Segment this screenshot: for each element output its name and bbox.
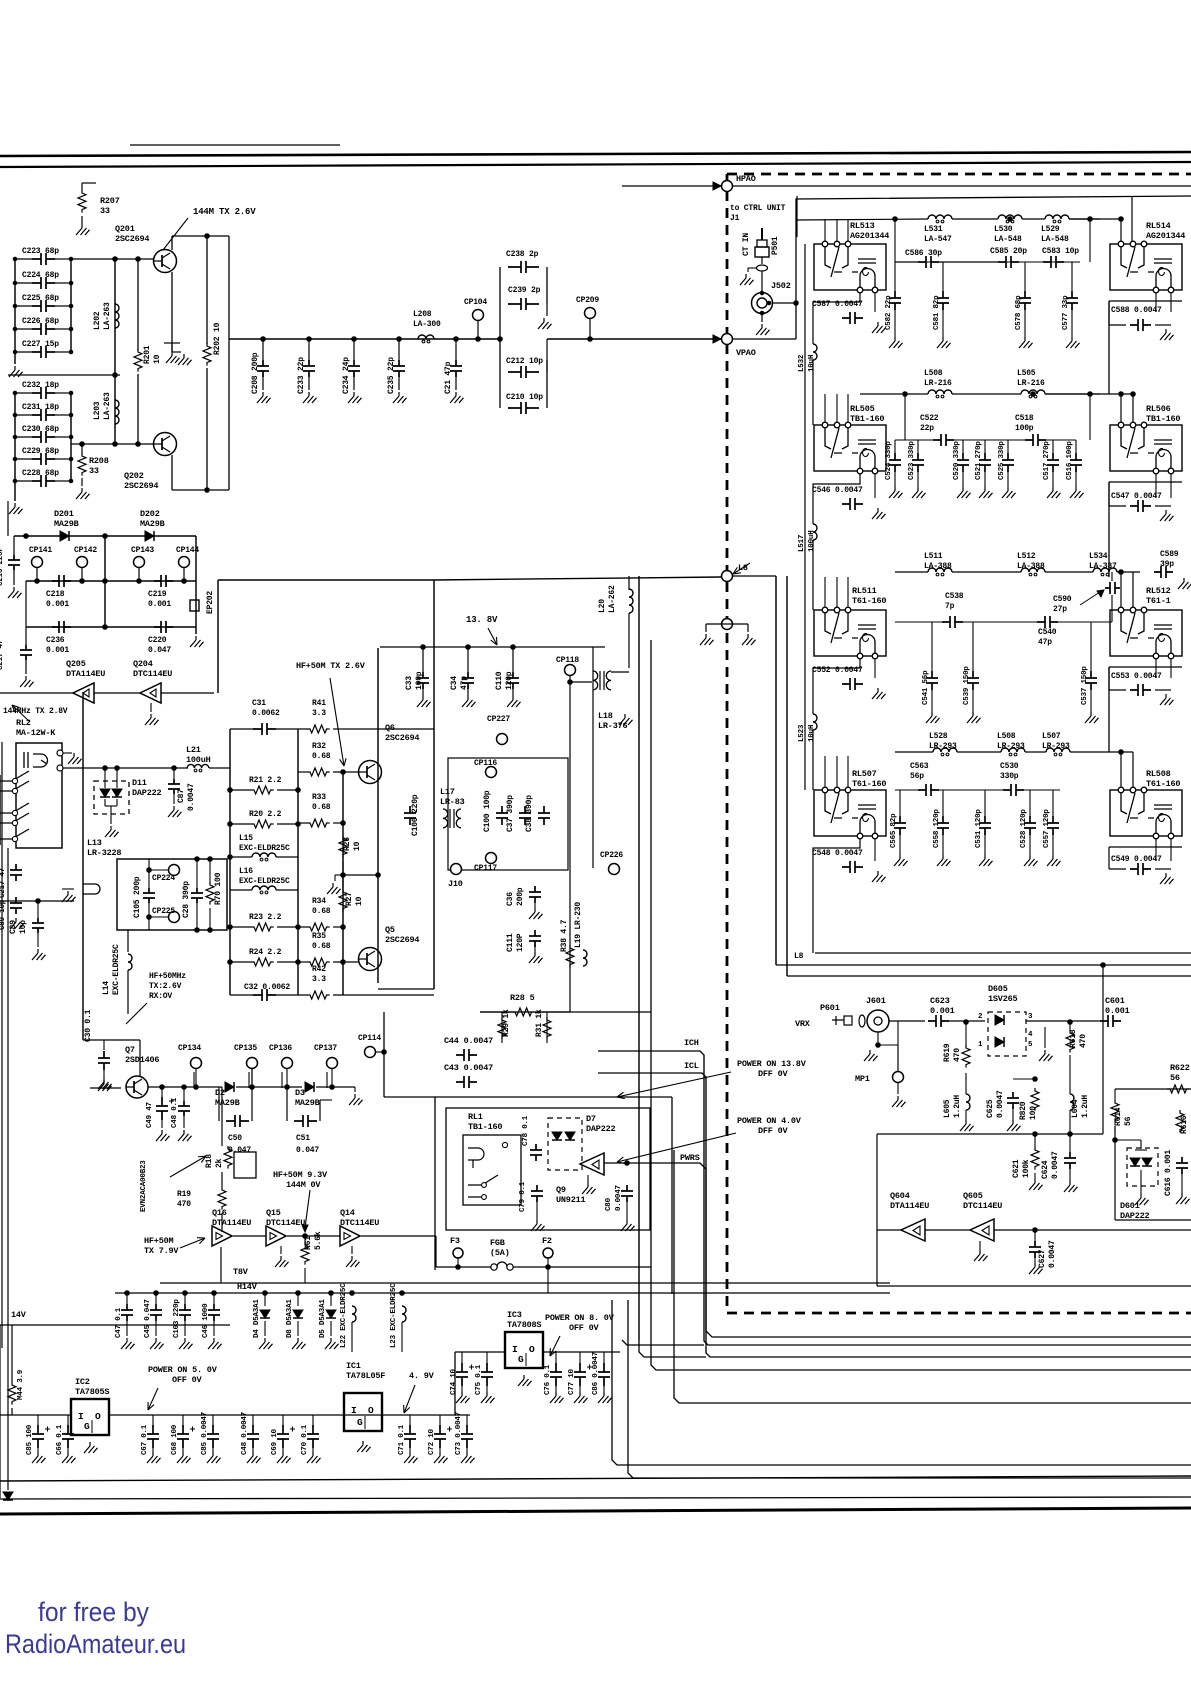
svg-text:R42: R42 <box>312 965 326 974</box>
svg-text:C540: C540 <box>1038 628 1057 637</box>
svg-text:2SC2694: 2SC2694 <box>385 733 419 743</box>
svg-text:LA-548: LA-548 <box>1041 235 1069 244</box>
svg-text:10uH: 10uH <box>808 725 816 742</box>
svg-text:CP143: CP143 <box>131 546 154 555</box>
svg-text:3.3: 3.3 <box>312 975 326 984</box>
svg-text:TA7805S: TA7805S <box>75 1387 109 1397</box>
svg-text:R18: R18 <box>205 1154 214 1168</box>
svg-text:C557 120p: C557 120p <box>1043 809 1051 848</box>
svg-text:Q9: Q9 <box>556 1185 566 1195</box>
svg-text:Q605: Q605 <box>963 1191 983 1201</box>
svg-text:C217 47: C217 47 <box>0 868 7 898</box>
svg-text:C111: C111 <box>506 933 515 952</box>
svg-text:C537 150p: C537 150p <box>1081 666 1089 705</box>
svg-text:0.0047: 0.0047 <box>1048 1240 1057 1268</box>
svg-text:C238 2p: C238 2p <box>506 250 539 259</box>
svg-text:DAP222: DAP222 <box>586 1124 616 1134</box>
svg-text:C547 0.0047: C547 0.0047 <box>1111 492 1162 501</box>
svg-text:L534: L534 <box>1089 552 1108 561</box>
svg-text:0.001: 0.001 <box>1105 1006 1130 1016</box>
svg-text:J1: J1 <box>730 214 740 223</box>
svg-text:10uH: 10uH <box>808 355 816 372</box>
svg-text:56p: 56p <box>910 772 924 781</box>
svg-text:LA-388: LA-388 <box>1017 562 1045 571</box>
svg-text:IC2: IC2 <box>75 1377 90 1387</box>
svg-text:LR-293: LR-293 <box>929 742 957 751</box>
svg-text:Q205: Q205 <box>66 659 86 669</box>
svg-text:39p: 39p <box>1160 560 1174 569</box>
svg-text:LR-293: LR-293 <box>997 742 1025 751</box>
svg-text:C31: C31 <box>252 699 266 708</box>
svg-text:T61-160: T61-160 <box>852 596 886 606</box>
svg-text:C43 0.0047: C43 0.0047 <box>444 1063 493 1073</box>
svg-text:0.001: 0.001 <box>930 1006 955 1016</box>
svg-text:R23 2.2: R23 2.2 <box>249 913 282 922</box>
svg-text:C530: C530 <box>1000 762 1019 771</box>
svg-text:L21: L21 <box>186 745 201 755</box>
svg-text:G: G <box>84 1421 90 1432</box>
svg-text:L508: L508 <box>997 732 1016 741</box>
svg-text:D2: D2 <box>215 1088 225 1098</box>
svg-text:C516 100p: C516 100p <box>1066 441 1074 480</box>
svg-text:C75 0.1: C75 0.1 <box>475 1364 483 1395</box>
svg-text:TA78L05F: TA78L05F <box>346 1371 385 1381</box>
svg-text:C234 24p: C234 24p <box>342 357 351 394</box>
svg-text:C216 220P: C216 220P <box>0 547 5 586</box>
svg-text:M44 3.9: M44 3.9 <box>17 1369 25 1400</box>
svg-text:0.001: 0.001 <box>46 646 69 655</box>
svg-text:CP136: CP136 <box>269 1044 292 1053</box>
svg-text:CP118: CP118 <box>556 656 579 665</box>
svg-text:C624: C624 <box>1041 1160 1050 1179</box>
svg-text:Q202: Q202 <box>124 471 144 481</box>
svg-text:0.68: 0.68 <box>312 803 331 812</box>
svg-text:CP225: CP225 <box>152 907 175 916</box>
svg-text:J10: J10 <box>448 879 463 889</box>
svg-text:C28 390p: C28 390p <box>182 881 191 918</box>
svg-text:0.68: 0.68 <box>312 907 331 916</box>
svg-text:C34: C34 <box>450 676 459 690</box>
svg-text:POWER ON 8. 0V: POWER ON 8. 0V <box>545 1313 615 1323</box>
svg-text:TB1-160: TB1-160 <box>1146 414 1180 424</box>
svg-text:C523 330p: C523 330p <box>908 441 916 480</box>
svg-text:CP227: CP227 <box>487 715 510 724</box>
svg-text:470: 470 <box>953 1048 962 1062</box>
svg-text:L507: L507 <box>1042 732 1061 741</box>
svg-text:CP142: CP142 <box>74 546 97 555</box>
svg-text:L531: L531 <box>924 225 943 234</box>
svg-text:C36: C36 <box>506 892 515 906</box>
svg-text:C77 10: C77 10 <box>568 1368 576 1395</box>
svg-text:RX:OV: RX:OV <box>149 992 172 1001</box>
svg-text:27p: 27p <box>1053 605 1067 614</box>
svg-text:L505: L505 <box>1017 369 1036 378</box>
svg-text:120P: 120P <box>516 933 525 952</box>
svg-text:C33: C33 <box>405 676 414 690</box>
svg-text:C73 0.0047: C73 0.0047 <box>455 1412 463 1455</box>
svg-text:R20 2.2: R20 2.2 <box>249 810 282 819</box>
svg-text:T8V: T8V <box>233 1267 249 1277</box>
svg-text:0.68: 0.68 <box>312 752 331 761</box>
svg-text:Q204: Q204 <box>133 659 153 669</box>
svg-text:C565 82p: C565 82p <box>890 813 898 848</box>
svg-text:R41: R41 <box>312 699 326 708</box>
svg-text:DTC114EU: DTC114EU <box>266 1218 305 1228</box>
svg-text:TB1-160: TB1-160 <box>468 1122 502 1132</box>
svg-text:D5 D5A3A1: D5 D5A3A1 <box>319 1299 327 1338</box>
svg-text:330p: 330p <box>1000 772 1019 781</box>
svg-text:C521 270p: C521 270p <box>975 441 983 480</box>
svg-text:L508: L508 <box>924 369 943 378</box>
svg-text:C89 10p: C89 10p <box>0 899 7 930</box>
svg-text:IC3: IC3 <box>507 1310 522 1320</box>
svg-text:C528 120p: C528 120p <box>1020 809 1028 848</box>
svg-text:C217 47: C217 47 <box>0 640 5 670</box>
svg-text:C586 30p: C586 30p <box>905 249 942 258</box>
svg-text:0.001: 0.001 <box>148 600 171 609</box>
svg-text:L20: L20 <box>598 599 607 613</box>
svg-text:C548 0.0047: C548 0.0047 <box>812 849 863 858</box>
svg-text:IC1: IC1 <box>346 1361 361 1371</box>
svg-text:R32: R32 <box>312 742 326 751</box>
svg-text:R622: R622 <box>1170 1063 1190 1073</box>
svg-text:C85 100: C85 100 <box>26 1424 34 1455</box>
svg-text:100: 100 <box>1029 1106 1038 1120</box>
svg-text:10: 10 <box>153 354 162 364</box>
svg-text:22p: 22p <box>920 424 934 433</box>
svg-text:HPAO: HPAO <box>736 174 756 184</box>
svg-text:1.2uH: 1.2uH <box>1081 1095 1090 1118</box>
svg-text:3: 3 <box>1028 1013 1033 1021</box>
svg-text:Q16: Q16 <box>212 1208 227 1218</box>
svg-text:O: O <box>529 1344 535 1355</box>
svg-text:HF+50M 9.3V: HF+50M 9.3V <box>273 1170 328 1180</box>
svg-text:56: 56 <box>1124 1116 1133 1126</box>
svg-text:MA-12W-K: MA-12W-K <box>16 728 56 738</box>
svg-text:D4 D5A3A1: D4 D5A3A1 <box>253 1299 261 1338</box>
svg-text:47p: 47p <box>460 676 469 690</box>
svg-text:D201: D201 <box>54 509 74 519</box>
svg-text:C80: C80 <box>605 1197 613 1211</box>
svg-text:MA29B: MA29B <box>140 519 165 529</box>
svg-text:O: O <box>368 1405 374 1416</box>
svg-text:P501: P501 <box>771 236 780 255</box>
svg-text:C601: C601 <box>1105 996 1125 1006</box>
svg-text:R619: R619 <box>943 1043 952 1062</box>
svg-text:C48 0.0047: C48 0.0047 <box>241 1412 249 1455</box>
svg-text:C585 20p: C585 20p <box>990 247 1027 256</box>
svg-text:C87: C87 <box>177 789 186 803</box>
svg-text:G: G <box>357 1417 363 1428</box>
svg-text:L8: L8 <box>794 952 804 961</box>
svg-text:4. 9V: 4. 9V <box>409 1371 435 1381</box>
svg-text:FGB: FGB <box>490 1238 505 1248</box>
svg-text:C67 0.1: C67 0.1 <box>141 1424 149 1455</box>
svg-text:C590: C590 <box>1053 595 1072 604</box>
svg-text:0.0047: 0.0047 <box>1051 1151 1060 1179</box>
svg-text:DFF 0V: DFF 0V <box>758 1126 789 1136</box>
svg-text:C517 270p: C517 270p <box>1043 441 1051 480</box>
svg-text:R820: R820 <box>1019 1101 1028 1120</box>
svg-text:C235 22p: C235 22p <box>387 357 396 394</box>
svg-text:L19 LR-230: L19 LR-230 <box>574 902 583 948</box>
svg-text:C218: C218 <box>46 590 65 599</box>
svg-text:CP141: CP141 <box>29 546 52 555</box>
svg-text:100uH: 100uH <box>808 530 816 552</box>
svg-text:HF+50M TX 2.6V: HF+50M TX 2.6V <box>296 661 366 671</box>
svg-text:RL512: RL512 <box>1146 586 1171 596</box>
svg-text:O: O <box>95 1411 101 1422</box>
svg-text:R207: R207 <box>100 196 120 206</box>
svg-text:C518: C518 <box>1015 414 1034 423</box>
svg-text:C208 200p: C208 200p <box>251 352 260 394</box>
svg-text:R208: R208 <box>89 456 109 466</box>
svg-text:LA-300: LA-300 <box>413 320 441 329</box>
svg-text:F3: F3 <box>450 1236 460 1246</box>
svg-text:47p: 47p <box>1038 638 1052 647</box>
svg-text:C100 100p: C100 100p <box>483 790 492 832</box>
svg-text:C37 390p: C37 390p <box>506 795 515 832</box>
svg-text:C103 220p: C103 220p <box>173 1299 181 1338</box>
svg-text:R38 4.7: R38 4.7 <box>560 919 569 952</box>
svg-text:1: 1 <box>978 1041 983 1049</box>
svg-text:C520 330p: C520 330p <box>953 441 961 480</box>
svg-text:LR-376: LR-376 <box>598 721 628 731</box>
svg-text:C45 0.047: C45 0.047 <box>144 1299 152 1338</box>
svg-text:2k: 2k <box>215 1158 224 1168</box>
svg-text:CP226: CP226 <box>600 851 623 860</box>
svg-text:G: G <box>518 1354 524 1365</box>
svg-text:C578 68p: C578 68p <box>1015 295 1023 330</box>
svg-text:DAP222: DAP222 <box>132 788 162 798</box>
svg-text:J601: J601 <box>866 996 886 1006</box>
svg-text:ICL: ICL <box>684 1061 699 1071</box>
svg-text:DTC114EU: DTC114EU <box>963 1201 1002 1211</box>
svg-text:HF+50M: HF+50M <box>144 1236 174 1246</box>
svg-text:C558 120p: C558 120p <box>933 809 941 848</box>
svg-text:EXC-ELDR25C: EXC-ELDR25C <box>239 877 290 886</box>
svg-text:AG201344: AG201344 <box>850 231 889 241</box>
svg-text:C21 47p: C21 47p <box>444 361 453 394</box>
svg-text:C38 390p: C38 390p <box>525 795 534 832</box>
svg-text:LA-388: LA-388 <box>924 562 952 571</box>
svg-text:RL1: RL1 <box>468 1112 483 1122</box>
svg-text:RL513: RL513 <box>850 221 875 231</box>
svg-text:C71 0.1: C71 0.1 <box>398 1424 406 1455</box>
svg-text:0.001: 0.001 <box>46 600 69 609</box>
svg-text:D605: D605 <box>988 984 1008 994</box>
svg-text:L528: L528 <box>929 732 948 741</box>
svg-text:100uH: 100uH <box>186 755 211 765</box>
svg-text:LR-216: LR-216 <box>924 379 952 388</box>
svg-text:R201: R201 <box>143 345 152 364</box>
svg-text:POWER ON 4.0V: POWER ON 4.0V <box>737 1116 802 1126</box>
svg-text:200p: 200p <box>516 887 525 906</box>
svg-text:CP104: CP104 <box>464 298 487 307</box>
svg-text:I: I <box>512 1344 518 1355</box>
svg-text:L18: L18 <box>598 711 613 721</box>
svg-text:C76 0.1: C76 0.1 <box>544 1364 552 1395</box>
svg-text:Q604: Q604 <box>890 1191 910 1201</box>
svg-text:DTA114EU: DTA114EU <box>66 669 105 679</box>
svg-text:MP1: MP1 <box>855 1074 870 1084</box>
svg-text:MA29B: MA29B <box>54 519 79 529</box>
svg-text:C48 0.1: C48 0.1 <box>171 1097 179 1128</box>
svg-text:T61-160: T61-160 <box>852 779 886 789</box>
svg-text:D11: D11 <box>132 778 147 788</box>
svg-text:POWER ON 13.8V: POWER ON 13.8V <box>737 1059 807 1069</box>
svg-text:R70 100: R70 100 <box>214 872 223 905</box>
svg-text:0.0062: 0.0062 <box>252 709 280 718</box>
svg-text:RL508: RL508 <box>1146 769 1171 779</box>
svg-text:C623: C623 <box>930 996 950 1006</box>
svg-text:L15: L15 <box>239 834 253 843</box>
svg-text:T61-160: T61-160 <box>1146 779 1180 789</box>
svg-text:LR-216: LR-216 <box>1017 379 1045 388</box>
svg-text:CP224: CP224 <box>152 874 175 883</box>
svg-text:C522: C522 <box>920 414 939 423</box>
svg-text:C68 100: C68 100 <box>171 1424 179 1455</box>
svg-text:33: 33 <box>100 206 110 216</box>
svg-text:33: 33 <box>89 466 99 476</box>
svg-text:L605: L605 <box>943 1099 952 1118</box>
svg-text:C589: C589 <box>1160 550 1179 559</box>
svg-text:1.2uH: 1.2uH <box>953 1095 962 1118</box>
svg-text:C563: C563 <box>910 762 929 771</box>
svg-text:LR-293: LR-293 <box>1042 742 1070 751</box>
svg-text:L203: L203 <box>93 401 102 420</box>
svg-text:R24 2.2: R24 2.2 <box>249 948 282 957</box>
svg-text:D7: D7 <box>586 1114 596 1124</box>
svg-text:RL2: RL2 <box>16 718 31 728</box>
svg-text:AG201344: AG201344 <box>1146 231 1185 241</box>
svg-text:L202: L202 <box>93 311 102 330</box>
svg-text:R34: R34 <box>312 897 326 906</box>
svg-text:3.3: 3.3 <box>312 709 326 718</box>
svg-text:C549 0.0047: C549 0.0047 <box>1111 855 1162 864</box>
svg-text:C587 0.0047: C587 0.0047 <box>812 300 863 309</box>
svg-text:LA-387: LA-387 <box>1089 562 1117 571</box>
svg-text:CP114: CP114 <box>358 1034 381 1043</box>
svg-text:LR-83: LR-83 <box>440 797 465 807</box>
svg-text:VPAO: VPAO <box>736 348 756 358</box>
svg-text:RadioAmateur.eu: RadioAmateur.eu <box>5 1629 186 1659</box>
svg-text:C30 0.1: C30 0.1 <box>84 1009 93 1042</box>
svg-text:C105 200p: C105 200p <box>133 876 142 918</box>
svg-text:C50: C50 <box>228 1134 242 1143</box>
svg-text:2SD1406: 2SD1406 <box>125 1055 159 1065</box>
svg-text:C66 0.1: C66 0.1 <box>56 1424 64 1455</box>
svg-text:RL514: RL514 <box>1146 221 1171 231</box>
svg-text:Q15: Q15 <box>266 1208 281 1218</box>
svg-text:LA-263: LA-263 <box>103 302 112 330</box>
svg-text:C239 2p: C239 2p <box>508 286 541 295</box>
svg-text:CT IN: CT IN <box>742 233 751 256</box>
svg-text:C625: C625 <box>986 1099 995 1118</box>
svg-text:DTC114EU: DTC114EU <box>340 1218 379 1228</box>
svg-text:CP117: CP117 <box>474 864 497 873</box>
svg-text:C552 0.0047: C552 0.0047 <box>812 666 863 675</box>
svg-text:TX:2.6V: TX:2.6V <box>149 982 182 991</box>
svg-text:DTA114EU: DTA114EU <box>212 1218 251 1228</box>
svg-text:C212 10p: C212 10p <box>506 357 543 366</box>
svg-text:14V: 14V <box>11 1310 27 1320</box>
svg-text:EXC-ELDR25C: EXC-ELDR25C <box>112 944 121 995</box>
svg-text:C236: C236 <box>46 636 65 645</box>
svg-text:LA-548: LA-548 <box>994 235 1022 244</box>
svg-text:10: 10 <box>353 841 362 851</box>
svg-text:C233 22p: C233 22p <box>297 357 306 394</box>
svg-text:100k: 100k <box>1022 1159 1031 1178</box>
svg-text:R28 5: R28 5 <box>510 993 535 1003</box>
svg-text:C110: C110 <box>495 671 504 690</box>
svg-text:R21 2.2: R21 2.2 <box>249 776 282 785</box>
svg-text:C219: C219 <box>148 590 167 599</box>
svg-text:D601: D601 <box>1120 1201 1140 1211</box>
svg-text:C69 10: C69 10 <box>271 1428 279 1455</box>
svg-text:C541 56p: C541 56p <box>922 670 930 705</box>
svg-text:120p: 120p <box>505 671 514 690</box>
svg-text:C79 0.1: C79 0.1 <box>519 1181 527 1212</box>
svg-text:2SC2694: 2SC2694 <box>385 935 419 945</box>
svg-text:Q6: Q6 <box>385 723 395 733</box>
svg-text:56: 56 <box>1170 1073 1180 1083</box>
svg-text:F2: F2 <box>542 1236 552 1246</box>
svg-text:L14: L14 <box>102 981 111 995</box>
svg-text:C621: C621 <box>1012 1159 1021 1178</box>
svg-text:C524 330p: C524 330p <box>885 441 893 480</box>
svg-text:D202: D202 <box>140 509 160 519</box>
svg-text:L208: L208 <box>413 310 432 319</box>
svg-text:(5A): (5A) <box>490 1248 510 1258</box>
svg-text:1SV265: 1SV265 <box>988 994 1018 1004</box>
svg-text:D8 D5A3A1: D8 D5A3A1 <box>286 1299 294 1338</box>
svg-text:MA29B: MA29B <box>295 1098 320 1108</box>
svg-text:RL507: RL507 <box>852 769 877 779</box>
svg-text:UN9211: UN9211 <box>556 1195 586 1205</box>
svg-text:LR-3228: LR-3228 <box>87 848 121 858</box>
svg-text:L511: L511 <box>924 552 943 561</box>
svg-text:2SC2694: 2SC2694 <box>115 234 149 244</box>
svg-text:0.0047: 0.0047 <box>615 1185 623 1211</box>
svg-text:C44 0.0047: C44 0.0047 <box>444 1036 493 1046</box>
svg-text:C210 10p: C210 10p <box>506 393 543 402</box>
svg-text:0.0047: 0.0047 <box>187 783 196 811</box>
svg-text:0.047: 0.047 <box>296 1146 319 1155</box>
svg-text:T61-1: T61-1 <box>1146 596 1171 606</box>
svg-text:OFF 0V: OFF 0V <box>569 1323 600 1333</box>
svg-text:470: 470 <box>1079 1034 1088 1048</box>
svg-text:I: I <box>78 1411 84 1422</box>
svg-text:EXC-ELDR25C: EXC-ELDR25C <box>239 844 290 853</box>
svg-text:Q14: Q14 <box>340 1208 355 1218</box>
svg-text:C51: C51 <box>296 1134 310 1143</box>
svg-text:CP116: CP116 <box>474 759 497 768</box>
svg-text:TA7808S: TA7808S <box>507 1320 541 1330</box>
svg-text:C539 150p: C539 150p <box>963 666 971 705</box>
svg-text:LA-262: LA-262 <box>608 585 617 613</box>
svg-text:DTC114EU: DTC114EU <box>133 669 172 679</box>
svg-text:CP134: CP134 <box>178 1044 201 1053</box>
svg-text:10: 10 <box>355 896 364 906</box>
svg-text:2: 2 <box>978 1013 983 1021</box>
svg-text:C49 47: C49 47 <box>146 1102 154 1128</box>
svg-text:VRX: VRX <box>795 1019 811 1029</box>
svg-text:DFF 0V: DFF 0V <box>758 1069 789 1079</box>
svg-text:7p: 7p <box>945 602 955 611</box>
svg-text:Q5: Q5 <box>385 925 395 935</box>
svg-text:C47 0.1: C47 0.1 <box>115 1307 123 1338</box>
